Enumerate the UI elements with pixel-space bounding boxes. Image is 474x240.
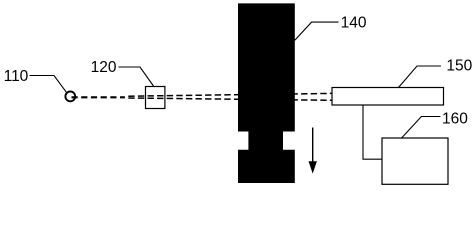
svg-text:140: 140 (341, 14, 367, 31)
electronics box 160 (382, 138, 448, 184)
leader line 120 (119, 67, 154, 87)
leader line 150 (399, 66, 442, 88)
source circle 110 (65, 92, 75, 102)
leader line 110 (30, 76, 67, 93)
leader line 160 (402, 117, 441, 139)
svg-text:160: 160 (442, 111, 468, 128)
modulator box 120 (146, 87, 165, 109)
upper dashed beam wire (128, 93, 332, 96)
svg-text:120: 120 (91, 59, 117, 76)
leader line 140 (295, 22, 339, 40)
chopper body 140 (black I-shape) (238, 3, 295, 183)
single dashed beam wire (72, 96, 125, 98)
detector box 150 (332, 88, 444, 106)
lower dashed beam wire (128, 98, 332, 100)
svg-text:150: 150 (446, 58, 472, 75)
connector wire 150 to 160 (363, 105, 382, 159)
down arrow head (309, 161, 317, 173)
svg-text:110: 110 (4, 68, 29, 85)
down arrow shaft (312, 128, 314, 165)
